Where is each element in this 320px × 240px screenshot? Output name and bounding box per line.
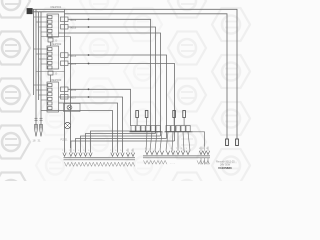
bus wire 3 bbox=[38, 12, 40, 100]
pin numbers X3 bbox=[145, 148, 208, 150]
wire stair 4 bbox=[76, 139, 167, 153]
svg-text:10: 10 bbox=[126, 150, 128, 152]
wire b1-3 bbox=[59, 33, 161, 136]
wire b2-1 bbox=[68, 54, 167, 138]
svg-text:7: 7 bbox=[176, 148, 177, 150]
svg-text:12: 12 bbox=[206, 148, 208, 150]
svg-text:3: 3 bbox=[73, 150, 74, 152]
svg-text:- - - -: - - - - bbox=[170, 163, 175, 165]
wires splice-to-connector bbox=[146, 132, 190, 151]
wire b1-2 bbox=[68, 26, 156, 133]
wire mid vertical 2 bbox=[70, 37, 72, 149]
wire stair 2 bbox=[86, 134, 156, 153]
connector X3 (right) bbox=[143, 151, 210, 158]
svg-text:6: 6 bbox=[88, 150, 89, 152]
svg-text:9017: 9017 bbox=[70, 96, 77, 100]
contact K1 bbox=[48, 38, 58, 46]
contact K2 bbox=[48, 71, 58, 82]
svg-text:5: 5 bbox=[166, 148, 167, 150]
bus wire 4 bbox=[40, 12, 42, 128]
terminal T3 bbox=[136, 111, 139, 126]
diode V2503 bbox=[61, 53, 77, 58]
svg-text:RE2501: RE2501 bbox=[51, 5, 62, 9]
relay RE2501 (block 1) bbox=[34, 5, 62, 37]
wire block2 bottom bbox=[36, 71, 65, 73]
wire stair 5 bbox=[71, 141, 175, 153]
connector X1 (feed block) bbox=[27, 9, 32, 14]
pin numbers X2 bbox=[62, 150, 132, 152]
svg-text:6: 6 bbox=[171, 148, 172, 150]
svg-text:2: 2 bbox=[150, 148, 151, 150]
svg-text:9014: 9014 bbox=[70, 54, 77, 58]
terminal T4 bbox=[145, 111, 148, 126]
svg-text:9: 9 bbox=[120, 150, 121, 152]
svg-text:2: 2 bbox=[69, 150, 70, 152]
wire b3-1 bbox=[68, 88, 131, 126]
svg-text:10: 10 bbox=[199, 148, 201, 150]
splice row S1 bbox=[130, 126, 163, 132]
wire block1 bottom bbox=[41, 36, 71, 38]
wire b3-3 bbox=[59, 103, 118, 153]
svg-text:V1065880: V1065880 bbox=[218, 166, 232, 170]
terminal T2 bbox=[236, 139, 239, 146]
relay RE2502 (block 2) bbox=[34, 42, 62, 69]
wire stair 3 bbox=[81, 136, 161, 153]
wire b1-1 bbox=[68, 18, 151, 131]
terminal B (bus end) bbox=[38, 118, 43, 142]
svg-text:11: 11 bbox=[131, 150, 133, 152]
gauge P2501 bbox=[61, 122, 71, 141]
svg-text:1: 1 bbox=[145, 148, 146, 150]
svg-text:9012: 9012 bbox=[70, 18, 77, 22]
svg-text:RE2502: RE2502 bbox=[51, 42, 62, 46]
diode V2501 bbox=[61, 17, 77, 22]
wire mid vertical 1 bbox=[64, 9, 66, 152]
svg-text:8: 8 bbox=[115, 150, 116, 152]
svg-text:4: 4 bbox=[78, 150, 79, 152]
wire splice right end bbox=[193, 132, 205, 147]
svg-text:7: 7 bbox=[110, 150, 111, 152]
wire top feed B bbox=[32, 11, 64, 13]
terminal T5 bbox=[173, 111, 176, 126]
svg-text:RE2503: RE2503 bbox=[51, 78, 62, 82]
bus wire 2 bbox=[35, 9, 37, 128]
svg-text:8: 8 bbox=[181, 148, 182, 150]
svg-text:9015: 9015 bbox=[70, 62, 77, 66]
wire stair 1 bbox=[91, 131, 151, 153]
figure id text bbox=[216, 160, 235, 170]
relay RE2503 (block 3) bbox=[34, 78, 62, 112]
svg-text:3: 3 bbox=[155, 148, 156, 150]
cable seals X3 mid bbox=[170, 163, 175, 165]
cable seals X3 left bbox=[144, 160, 167, 164]
svg-text:9: 9 bbox=[186, 148, 187, 150]
wire feed C bbox=[65, 14, 228, 139]
svg-text:5: 5 bbox=[83, 150, 84, 152]
diode V2504 bbox=[61, 61, 77, 66]
cable seals X3 right bbox=[197, 160, 210, 164]
wire b2-2 bbox=[68, 63, 175, 141]
diode V2506 bbox=[61, 95, 77, 100]
wire b3-2 bbox=[59, 96, 123, 153]
lamp H2501 bbox=[64, 104, 81, 112]
svg-text:P2501: P2501 bbox=[61, 139, 69, 142]
terminal A (bus end) bbox=[33, 118, 38, 142]
terminal T6 bbox=[183, 111, 186, 126]
terminal T1 bbox=[226, 139, 229, 146]
svg-text:1: 1 bbox=[62, 150, 63, 152]
wire b3-4 bbox=[41, 111, 113, 153]
bus wire 1 bbox=[33, 9, 35, 95]
splice row S2 bbox=[165, 126, 193, 132]
wire stubs X2 bbox=[128, 149, 133, 153]
wire top feed A bbox=[32, 9, 237, 139]
svg-text:11: 11 bbox=[202, 148, 204, 150]
connector X2 (left) bbox=[63, 153, 135, 160]
diode V2502 bbox=[61, 25, 77, 30]
svg-text:9013: 9013 bbox=[70, 26, 77, 30]
cable seals X2 bbox=[65, 162, 135, 166]
wire stubs X3 bbox=[201, 147, 208, 165]
svg-text:4: 4 bbox=[160, 148, 161, 150]
svg-text:9016: 9016 bbox=[70, 88, 77, 92]
diode V2505 bbox=[61, 87, 77, 92]
